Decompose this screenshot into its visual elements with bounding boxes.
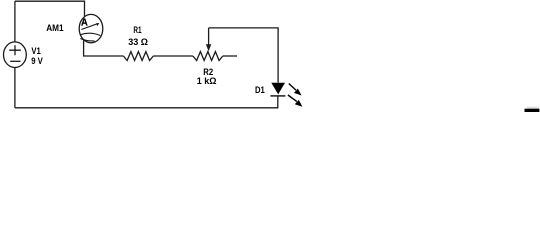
svg-text:1 kΩ: 1 kΩ (197, 76, 217, 86)
LED D1 (270, 83, 285, 96)
wire left side above V1 (14, 1, 16, 42)
LED emission arrow lower (288, 95, 303, 107)
ammeter AM1 (79, 14, 103, 42)
svg-text:V1: V1 (31, 46, 40, 56)
wire left side below V1 (14, 68, 16, 108)
svg-text:A: A (81, 18, 88, 29)
LED emission arrow upper (289, 84, 302, 96)
potentiometer R2 body (193, 52, 223, 61)
wire LED cathode to bottom rail (277, 96, 279, 108)
wire ammeter down to middle rail (84, 40, 124, 56)
resistor R1 (123, 52, 153, 61)
R2 right stub wire (unconnected) (223, 55, 237, 57)
svg-text:AM1: AM1 (46, 23, 63, 33)
wire bottom rail (15, 107, 279, 109)
decorative black bar bottom right (527, 107, 540, 109)
wire wiper jumper over to LED branch (209, 28, 279, 83)
svg-text:D1: D1 (255, 85, 265, 95)
wire top rail from V1 to ammeter branch (15, 1, 85, 17)
svg-text:R1: R1 (133, 25, 141, 35)
voltage source V1 (4, 42, 27, 68)
wire R1 to R2 (153, 55, 193, 57)
svg-text:33 Ω: 33 Ω (128, 37, 148, 47)
svg-text:9 V: 9 V (31, 56, 43, 66)
R2 wiper arrow (206, 28, 211, 51)
